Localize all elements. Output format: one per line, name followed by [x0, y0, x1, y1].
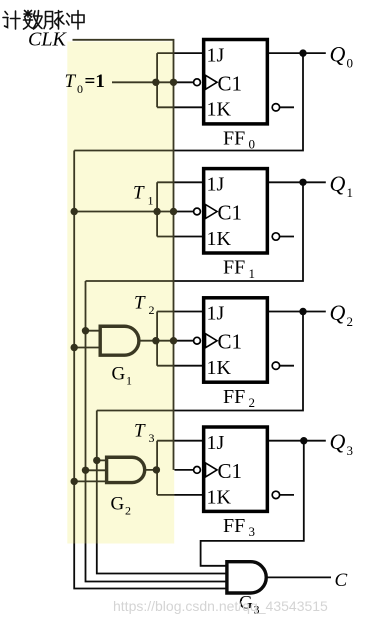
svg-text:1J: 1J	[207, 174, 225, 196]
svg-text:1: 1	[126, 374, 132, 388]
svg-text:0: 0	[347, 56, 354, 71]
svg-text:CLK: CLK	[28, 28, 67, 50]
svg-text:FF: FF	[223, 257, 245, 279]
svg-text:3: 3	[347, 443, 354, 458]
svg-text:1J: 1J	[207, 44, 225, 66]
svg-text:Q: Q	[330, 42, 346, 67]
svg-text:G: G	[111, 494, 125, 515]
svg-text:1: 1	[148, 194, 154, 208]
svg-text:C1: C1	[218, 201, 243, 225]
svg-text:Q: Q	[330, 171, 346, 196]
svg-text:=1: =1	[85, 71, 105, 92]
svg-text:2: 2	[149, 303, 155, 317]
svg-text:Q: Q	[330, 300, 346, 325]
svg-text:Q: Q	[330, 429, 346, 454]
svg-text:T: T	[65, 71, 77, 92]
svg-text:2: 2	[125, 504, 131, 518]
svg-text:C1: C1	[218, 459, 243, 483]
svg-text:1: 1	[347, 185, 354, 200]
svg-text:C1: C1	[218, 71, 243, 95]
svg-text:https://blog.csdn.net/qq_43543: https://blog.csdn.net/qq_43543515	[113, 598, 328, 614]
svg-text:3: 3	[249, 524, 256, 539]
svg-text:FF: FF	[223, 515, 245, 537]
svg-text:FF: FF	[223, 127, 245, 149]
svg-text:C1: C1	[218, 330, 243, 354]
svg-text:0: 0	[249, 137, 256, 152]
svg-text:3: 3	[149, 431, 155, 445]
svg-text:2: 2	[347, 314, 354, 329]
svg-text:C: C	[335, 570, 348, 591]
svg-text:1K: 1K	[207, 99, 232, 121]
svg-text:0: 0	[77, 82, 83, 96]
svg-text:G: G	[112, 364, 126, 385]
svg-text:1K: 1K	[207, 228, 232, 250]
svg-text:T: T	[134, 421, 146, 442]
svg-text:1J: 1J	[207, 432, 225, 454]
svg-text:FF: FF	[223, 386, 245, 408]
svg-text:1K: 1K	[207, 486, 232, 508]
svg-text:1: 1	[249, 266, 256, 281]
svg-text:1K: 1K	[207, 357, 232, 379]
svg-text:2: 2	[249, 395, 256, 410]
svg-text:T: T	[134, 293, 146, 314]
svg-text:1J: 1J	[207, 303, 225, 325]
svg-text:T: T	[133, 183, 145, 204]
